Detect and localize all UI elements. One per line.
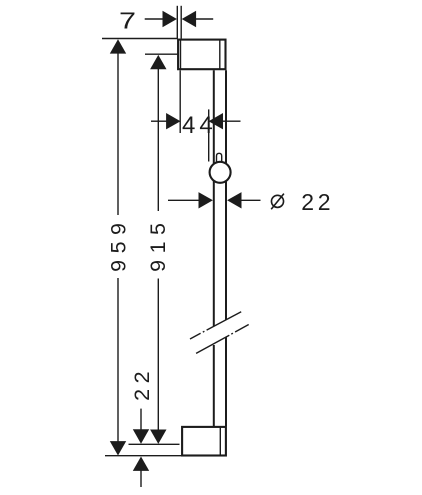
dimension 915: bottom extension line [129,443,180,445]
svg-text:22: 22 [301,189,334,215]
svg-text:959: 959 [107,217,131,272]
dimension 22: upper tail line [140,409,142,430]
dimension 44: extension line left [179,70,181,133]
break line upper [190,312,241,339]
bottom wall bracket cap [182,426,226,455]
dimension 959: bottom extension line [105,455,182,457]
break line lower [196,325,249,354]
slider knob [217,153,222,168]
dimension 22: arrows [133,429,149,471]
svg-text:22: 22 [130,366,154,401]
rail tube left edge [213,70,215,426]
svg-text:44: 44 [182,112,217,139]
dimension 7: dimension line with arrows [145,18,214,20]
top wall bracket cap [178,39,225,70]
dimension 915: vertical dimension line with arrows [157,68,159,431]
dimension 22: lower tail line [140,470,142,487]
dimension 44: dimension line with arrows [151,120,241,122]
dimension diameter 22: dimension line with arrows [168,199,261,201]
dimension 959: top extension line [102,38,178,40]
svg-text:7: 7 [119,7,136,33]
svg-text:915: 915 [146,217,170,272]
dimension 44: extension line right [208,109,210,161]
dimension diameter 22: label [271,194,284,210]
slider ring [210,162,231,183]
dimension 959: vertical dimension line with arrows [117,52,119,443]
rail tube right edge [225,70,227,426]
dimension 915: top extension line [145,53,178,55]
dimension 7: extension lines [177,6,181,39]
